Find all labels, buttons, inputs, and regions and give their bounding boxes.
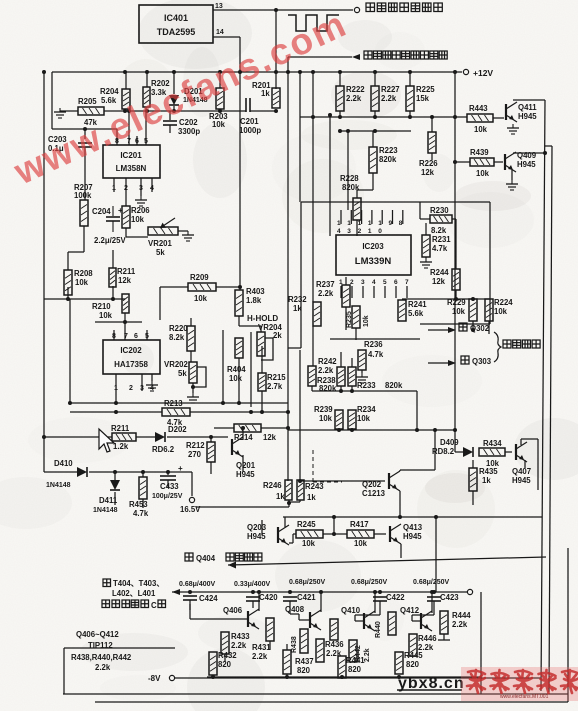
resistor R208 (10k)	[64, 269, 93, 295]
wire y391 to right	[352, 390, 417, 392]
wire to 16.5V terminal	[191, 472, 193, 496]
resistor R404 (10k)	[227, 338, 246, 383]
arrow to Q404	[228, 562, 236, 569]
resistor R453 (4.7k)	[129, 472, 149, 518]
wire R404 stubs	[238, 330, 240, 403]
wire emitter bus	[209, 675, 213, 679]
wire box around IC203 (bottom)	[420, 323, 490, 325]
wire R417 to Q413	[374, 533, 386, 535]
wire R209 left	[160, 287, 188, 320]
resistor R445 (820)	[395, 651, 423, 674]
wire box around IC203 (top)	[301, 201, 490, 203]
transistor Q203 (H945)	[247, 523, 289, 545]
wire Q203 base	[262, 520, 278, 535]
diode D201 (1N4148)	[169, 72, 208, 111]
pin labels 1 2 3 4 (IC202 bottom)	[114, 385, 154, 392]
wire R444 bottom bar	[438, 634, 450, 640]
wire mid rail x330	[328, 113, 332, 236]
vertical-label resistor R440 (2.2k)	[375, 612, 396, 638]
resistor R205 (47k)	[78, 97, 104, 127]
wire to D409	[455, 451, 463, 453]
node 16.5V terminal	[189, 497, 194, 502]
dashed screen boundary	[313, 450, 342, 482]
net label 去Q302 (to Q302)	[459, 323, 490, 333]
resistor R446 (2.2k)	[409, 634, 437, 656]
net label 行同步脉冲输入 (H sync pulse input)	[366, 3, 442, 12]
wire R439 to Q409	[494, 161, 503, 163]
wire rail x348 down	[346, 129, 350, 210]
value label 0.68u/250V (1)	[289, 579, 326, 586]
IC U201 (IC201 LM358N)	[103, 145, 160, 178]
wire IC201 pin4 down	[151, 178, 153, 192]
capacitor C421	[283, 590, 316, 604]
wire Q409 emitter	[511, 170, 513, 180]
wire R432 bottom	[212, 675, 214, 677]
wire R443 left	[445, 116, 467, 118]
wire to Q302	[428, 328, 475, 332]
IC U202 (IC202 HA17358)	[103, 340, 160, 374]
wire rail x223	[222, 330, 224, 403]
net label 场幅调整 (V size adjust)	[503, 340, 540, 348]
capacitor C204 (2.2u/25V electrolytic)	[92, 206, 126, 245]
transistor Q412 (TIP112)	[400, 604, 434, 631]
wire R433 stubs	[224, 621, 226, 662]
ground at VR202	[187, 393, 199, 403]
wire R213 right	[190, 410, 288, 414]
wire R243 top feed	[299, 350, 301, 481]
wire Q407 emitter	[524, 460, 526, 468]
wire R435 bottom	[472, 491, 474, 505]
diode D411 (1N4148)	[93, 472, 120, 514]
wire R238 top	[317, 352, 341, 367]
note Q406~Q412 TIP112	[76, 630, 119, 650]
transistor Q202 (C1213)	[362, 471, 400, 498]
resistor R441 (820)	[338, 656, 365, 678]
wire R206 bottom to VR201	[126, 228, 148, 237]
resistor R211 (12k)	[109, 267, 136, 287]
resistor R201 (1k)	[252, 81, 280, 108]
potentiometer VR202 (5k)	[164, 360, 206, 387]
value label 0.33u/400V	[234, 581, 271, 588]
wire D410 cathode node	[89, 470, 192, 474]
arrow to RGB control	[352, 54, 360, 60]
ground near R205	[54, 104, 66, 118]
wire R211 bottom stub	[112, 286, 114, 299]
wire Q202 collector	[400, 430, 435, 471]
wire IC202 pin5	[146, 330, 148, 340]
resistor R237 (2.2k)	[316, 280, 350, 307]
wire bottom block right edge	[480, 592, 482, 694]
pin 13 label	[215, 3, 223, 10]
wire IC201 pin5	[145, 140, 147, 145]
wire R403 to VR204	[239, 316, 261, 332]
net label +12V	[473, 68, 493, 78]
potentiometer VR204 (2k)	[257, 323, 283, 360]
wire bus y117	[300, 111, 467, 119]
capacitor C423	[427, 590, 459, 604]
wire R228 bottom	[356, 220, 358, 236]
wire Q201 collector	[241, 426, 245, 439]
wire R203 top	[219, 72, 221, 88]
wire IC202 pin8	[113, 330, 115, 340]
resistor R202 (3.3k)	[143, 79, 170, 107]
wire R227 top	[374, 72, 376, 86]
wire VR204 bottom	[256, 346, 262, 373]
resistor R213 (4.7k)	[162, 399, 190, 427]
wire R215 bottom	[261, 391, 263, 412]
resistor R222 (2.2k)	[336, 85, 365, 111]
wire Q203 emitter to R245	[289, 534, 296, 543]
wire C203 to R207	[84, 160, 86, 200]
wire R211 top	[112, 250, 114, 268]
wire Q201 emitter	[242, 455, 244, 472]
vertical-label resistor R438	[291, 629, 308, 653]
wire R212 bottom	[210, 462, 212, 474]
wire bus y412	[70, 410, 162, 414]
wire IC201 pin8	[116, 129, 118, 145]
resistor R434 (10k)	[479, 439, 505, 468]
resistor R236 (4.7k)	[358, 340, 384, 370]
brace grouping Q302/Q303	[494, 332, 501, 362]
net label -8V	[148, 674, 161, 683]
wire R244 bottom	[454, 290, 458, 301]
wire junction up	[333, 517, 335, 534]
node -8V terminal	[169, 675, 174, 680]
mouse cursor	[99, 429, 114, 452]
net label 去Q404 行幅调整 (to Q404 H width adjust)	[185, 553, 262, 563]
ground IC201 pin3	[135, 196, 147, 206]
wire to D410	[44, 471, 77, 473]
net label H-HOLD	[247, 314, 278, 323]
wire R237 stubs	[345, 277, 347, 330]
vertical-label resistor R442 (2.2k)	[349, 640, 371, 662]
wire VR202 bottom gnd	[191, 383, 195, 393]
transistor Q406 (TIP112)	[190, 604, 259, 629]
wire IC201 pin3 down	[140, 178, 142, 196]
transistor Q409 (H945)	[505, 151, 537, 172]
pin labels 14-8 (IC203 top)	[337, 220, 403, 235]
pin 14 label	[216, 29, 224, 36]
resistor R226 (12k)	[419, 132, 438, 177]
IC U401 (IC401 TDA2595 sync processor)	[139, 5, 213, 43]
wire rail x288	[286, 57, 290, 481]
wire bus y403	[70, 401, 288, 405]
resistor R220 (8.2k)	[169, 324, 195, 351]
wire branch y339	[330, 338, 420, 340]
wire IC203 bottom pins	[341, 286, 407, 298]
wire box around IC203 (right)	[489, 202, 491, 324]
wire Q413 emitter	[400, 544, 402, 558]
resistor R437 (820)	[283, 644, 314, 678]
wire R443 to Q411	[493, 117, 504, 119]
wire H-output line y592	[172, 591, 467, 593]
wire right rail C	[549, 146, 552, 692]
wire R229 bottom	[472, 321, 474, 330]
value label 0.68u/250V (3)	[413, 579, 450, 586]
capacitor C201 (1000p)	[239, 98, 261, 135]
resistor R239 (10k)	[314, 405, 343, 429]
resistor R231 (4.7k)	[422, 235, 451, 257]
pin labels 1 2 3 4 (IC201 bottom)	[112, 185, 154, 192]
wire R241 top	[401, 286, 403, 300]
wire after R216	[136, 436, 155, 438]
wire Q408 collector	[319, 590, 323, 612]
wire node line y111	[123, 109, 246, 113]
wire rail x436 down	[435, 517, 437, 592]
wire R202 top	[146, 72, 148, 87]
transistor Q407 (H945)	[512, 442, 531, 485]
diode D410 (1N4148)	[46, 459, 87, 489]
resistor R245 (10k)	[296, 520, 323, 548]
ground at VR201	[182, 231, 194, 241]
wire R203 bottom	[219, 109, 221, 111]
resistor R444 (2.2k)	[440, 611, 471, 634]
wire R246 R243 bottoms	[196, 500, 300, 507]
wire y430 long	[288, 428, 457, 432]
wire bottom frame outer	[95, 701, 568, 703]
wire bottom-left border	[64, 648, 175, 694]
resistor R244 (12k)	[430, 268, 460, 290]
wire Q409 collector to rail	[513, 151, 547, 155]
resistor R230 (8.2k)	[430, 206, 452, 235]
node: sync input terminal	[354, 7, 359, 12]
wire to RGB display control	[288, 56, 352, 58]
note R438 R440 R442 2.2k	[71, 653, 132, 672]
resistor R232 (1k)	[288, 295, 321, 326]
wire to Q404 drive line	[228, 557, 546, 565]
wire left x44 lower	[43, 298, 45, 300]
resistor R433 (2.2k)	[221, 632, 250, 654]
ground at R236	[356, 370, 368, 383]
wire emitters bus y677	[207, 675, 481, 679]
wire R210 bottom to IC202 pin7	[124, 313, 126, 340]
wire node line y299	[44, 297, 125, 301]
wire right rail A	[567, 548, 569, 702]
wire R225 top	[409, 72, 411, 86]
wire IC201 pin2 down	[125, 178, 127, 206]
wire R220 stubs	[190, 318, 192, 362]
zener diode D409 (RD8.2)	[432, 438, 473, 457]
capacitor C433 (100u/25V electrolytic)	[152, 464, 183, 500]
wire right rail B	[541, 100, 545, 691]
resistor R436 (2.2k)	[316, 639, 344, 662]
wire R204 top	[125, 72, 127, 89]
value label 0.68u/250V (2)	[351, 579, 388, 586]
potentiometer VR201 (5k)	[148, 218, 178, 257]
wire Q406 collector	[257, 590, 261, 611]
ground at R231	[420, 257, 432, 268]
wire R230 right to R244	[452, 219, 456, 269]
resistor R435 (1k)	[469, 452, 498, 491]
resistor R443 (10k)	[467, 104, 493, 134]
wire Q407 collector	[521, 439, 541, 517]
wire mid rail x300	[298, 70, 302, 202]
IC U203 (IC203 LM339N)	[336, 235, 411, 275]
net label 去三色显示控制电路 (to tri-color display control)	[364, 51, 447, 59]
arrow to Q303	[448, 360, 456, 366]
resistor R233 (820k)	[348, 367, 403, 390]
resistor R246 (1k)	[263, 480, 292, 501]
wire R245 to R417	[323, 532, 347, 536]
wire Q410 collector	[373, 590, 377, 613]
wire Q203 collector	[284, 517, 286, 527]
pin labels 8 7 6 5 (IC202 top)	[112, 333, 149, 340]
wire rail C top link	[545, 145, 552, 147]
wire R232 bottom to R242	[312, 326, 314, 366]
wire IC202 pin1 down	[115, 374, 117, 403]
resistor R229 (10k)	[447, 298, 477, 321]
zener diode D202 (RD6.2)	[152, 425, 187, 454]
wire R202 bottom to pin5	[145, 107, 147, 140]
wire R434 to Q407	[505, 451, 512, 453]
resistor R214 (12k)	[234, 424, 277, 442]
junction dots on +12V bus	[123, 70, 412, 74]
resistor R238 (820k)	[317, 367, 345, 393]
wire left branch from bus	[51, 72, 53, 129]
wire rail x240 (H-HOLD)	[239, 72, 241, 290]
resistor R228 (820k)	[340, 174, 361, 220]
watermark www.elecfans.com (diagonal red)	[7, 3, 364, 193]
node output terminal	[467, 589, 472, 594]
net label 去Q303 (to Q303)	[461, 356, 492, 366]
resistor R204 (5.6k)	[100, 87, 130, 109]
wire R234 stubs	[351, 391, 353, 431]
wire R212 top	[210, 437, 212, 442]
wire C201 to R201	[250, 109, 278, 113]
wire R208 bottom stub	[67, 287, 69, 299]
wire IC203 top pins	[341, 210, 403, 224]
resistor R431 (2.2k)	[252, 618, 274, 661]
resistor R403 (1.8k)	[235, 287, 265, 316]
wire bottoms join y391	[312, 386, 354, 393]
arrow to Q302	[448, 327, 456, 333]
wire base line left	[42, 435, 112, 439]
wire IC201 pin6	[136, 136, 138, 145]
resistor R215 (2.7k)	[258, 373, 286, 391]
wire pin13 to sync input	[213, 9, 353, 11]
wire R223 stubs	[357, 131, 373, 198]
wire left rail x44	[42, 70, 46, 472]
wire rail x251	[250, 332, 252, 407]
wire rail x276 (pin13 to R201)	[274, 8, 278, 89]
wire rail x70 to bus	[68, 299, 72, 405]
wire y517	[283, 515, 542, 519]
net label 接行输出管C极 (to H output transistor C)	[102, 600, 166, 610]
capacitor C203 (0.1u)	[48, 129, 92, 160]
watermark ybx8.cn	[397, 675, 465, 692]
capacitor C202 (3300p)	[163, 111, 200, 136]
pin labels 1-7 (IC203 bottom)	[339, 279, 409, 286]
wire R207 bottom chain	[68, 226, 84, 270]
resistor R227 (2.2k)	[371, 85, 400, 111]
wire IC201 pin7	[127, 109, 131, 145]
transistor Q408 (TIP112)	[285, 604, 321, 630]
wire R222 top	[339, 72, 341, 86]
resistor R212 (270)	[186, 441, 215, 462]
wire R205 to R204 node	[104, 110, 125, 112]
wire R235 stubs	[355, 298, 357, 340]
wire IC201 pin1 down	[113, 178, 115, 192]
wire Q202 base	[298, 479, 385, 483]
resistor R225 (15k)	[406, 85, 435, 111]
resistor R210 (10k)	[92, 294, 129, 320]
resistor (unlabelled, near Q408 emitter)	[330, 612, 338, 640]
wire R209 right to rail	[216, 285, 242, 289]
wire R226 top	[431, 117, 433, 132]
transistor Q413 (H945)	[390, 523, 423, 544]
net label L402 L401	[112, 589, 156, 598]
resistor R206 (10k)	[122, 206, 150, 228]
transistor Q411 (H945)	[506, 102, 537, 122]
resistor R207 (100k)	[74, 183, 93, 226]
resistor R242 (2.2k)	[308, 357, 337, 386]
wire -8V line	[175, 677, 541, 679]
wire rail x455 from +12V	[453, 70, 457, 452]
wire R230 left	[420, 202, 430, 219]
wire R439 left	[455, 161, 470, 163]
wire VR201 to ground	[178, 230, 188, 232]
resistor R235 (10k)	[346, 306, 370, 328]
resistor R209 (10k)	[188, 273, 216, 303]
ground at Q409	[506, 180, 518, 190]
resistor R234 (10k)	[348, 405, 376, 429]
resistor R439 (10k)	[470, 148, 494, 178]
pin labels 8 7 6 5 (IC201 top)	[115, 138, 148, 145]
wire node line y129	[52, 127, 117, 131]
wire box around IC203 (left)	[288, 202, 301, 348]
resistor R241 (5.6k)	[398, 300, 427, 321]
wire pin14	[213, 37, 240, 72]
wire D202 to Q201 base	[167, 435, 228, 439]
net label 16.5V	[180, 505, 201, 514]
wire R224 bottom	[488, 321, 490, 334]
ground IC202	[146, 374, 158, 391]
wire +12V bus	[52, 71, 462, 73]
wire Q202 emitter	[398, 491, 402, 519]
wire to Q303	[428, 362, 452, 364]
wire bottom frame	[63, 693, 568, 695]
node +12V terminal	[463, 69, 468, 74]
wire C201 plates	[245, 110, 247, 112]
wire R226 bottom	[431, 153, 433, 160]
wire bus y131	[338, 129, 411, 133]
value label 0.68u/400V	[179, 581, 216, 588]
arrow H-output left	[172, 589, 180, 595]
wire R210 top stub	[124, 294, 126, 299]
wire Q411 collector to right rail	[513, 99, 545, 101]
ground at Q411 emitter	[507, 124, 519, 134]
resistor R417 (10k)	[347, 520, 374, 548]
transistor Q201 (H945)	[232, 437, 256, 479]
wire y322 link	[95, 320, 142, 324]
wire x417 drop	[416, 391, 418, 430]
waveform: horizontal sync pulse train	[288, 15, 339, 31]
wire R239 stubs	[338, 391, 340, 431]
wire bus y299	[402, 297, 490, 301]
net label 经T404 T403 (via T404,T403)	[103, 579, 164, 588]
wire Q413 collector	[400, 517, 402, 524]
wire IC202 pin3 down	[141, 374, 143, 391]
wire Q412 collector	[430, 590, 434, 613]
wire R231 top	[425, 223, 427, 235]
watermark red logo block (bottom right)	[461, 667, 578, 701]
wire mid rail x313	[311, 70, 315, 302]
wire R233 top	[351, 358, 353, 367]
wire R214 ends	[214, 412, 288, 428]
capacitor C424	[183, 590, 218, 610]
resistor R211 (1.2k)	[111, 424, 136, 451]
wire gnd to R205	[60, 110, 78, 112]
